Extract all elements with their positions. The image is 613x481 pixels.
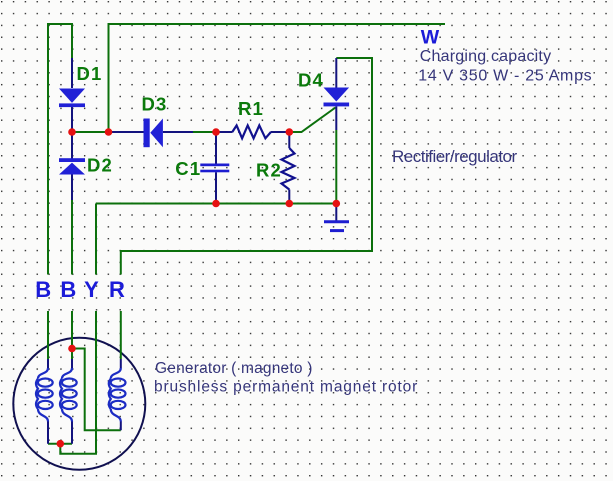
svg-text:D2: D2 — [87, 155, 113, 176]
wire: SCR gate from node4 — [289, 108, 335, 133]
svg-text:Charging capacity: Charging capacity — [420, 48, 551, 65]
inductor coil L2 — [60, 368, 77, 422]
wire: B2 to D2 anode — [71, 200, 73, 275]
wire: B2 lower — [71, 311, 73, 359]
wire: W output rail — [109, 24, 446, 132]
wire: ground rail — [96, 203, 336, 205]
lead D1 top — [71, 58, 73, 88]
capacitor C1 — [200, 164, 229, 173]
svg-text:R1: R1 — [238, 98, 264, 119]
wire: B1 lower — [47, 311, 49, 359]
wire: node1 to node2 — [72, 131, 109, 133]
diode D2 — [59, 158, 85, 174]
wire: D4 top to right rail to R label — [121, 58, 372, 275]
wire: Y lower into generator — [60, 311, 96, 454]
resistor R2 — [282, 148, 295, 190]
lead R1 — [216, 131, 289, 133]
svg-text:D4: D4 — [298, 70, 324, 91]
junction node4 — [286, 128, 294, 136]
ground — [324, 222, 349, 231]
junction coil2 top — [68, 345, 76, 353]
junction R2 bottom — [286, 200, 294, 208]
svg-text:B: B — [60, 277, 76, 302]
lead coil3 — [120, 359, 122, 430]
svg-text:D1: D1 — [77, 63, 103, 84]
resistor R1 — [232, 125, 271, 138]
lead coil2 — [71, 359, 73, 444]
wire: coil2 top tie to coil3 bottom — [72, 349, 121, 431]
inductor coil L3 — [109, 368, 126, 422]
lead C1 — [215, 132, 217, 204]
lead R2 — [288, 132, 290, 204]
wire: coil1-coil2 bottom tie — [48, 443, 72, 445]
junction D4 cathode — [333, 200, 341, 208]
generator circle (magneto housing) — [13, 338, 145, 470]
inductor coil L1 — [36, 368, 53, 422]
svg-text:C1: C1 — [175, 158, 201, 179]
svg-text:W: W — [421, 26, 440, 48]
lead ground — [335, 204, 337, 221]
lead D4 — [335, 58, 337, 130]
svg-text:brushless permanent magnet rot: brushless permanent magnet rotor — [154, 379, 418, 396]
svg-text:R2: R2 — [256, 160, 282, 181]
svg-text:R: R — [109, 277, 125, 302]
diode D3 — [144, 119, 163, 148]
junction C1 bottom — [212, 200, 220, 208]
junction coil bottom tie — [57, 440, 65, 448]
lead D1 bottom — [71, 107, 73, 133]
junction node2 — [105, 128, 113, 136]
lead coil1 — [47, 359, 49, 444]
svg-text:Y: Y — [84, 277, 99, 302]
svg-text:14 V 350 W - 25 Amps: 14 V 350 W - 25 Amps — [418, 68, 592, 85]
svg-text:B: B — [35, 277, 51, 302]
junction node1 — [68, 128, 76, 136]
junction node3 — [212, 128, 220, 136]
lead D3 — [109, 131, 194, 133]
thyristor D4 — [324, 88, 350, 107]
svg-text:Rectifier/regulator: Rectifier/regulator — [392, 147, 518, 166]
wire: D4 cathode to ground rail — [335, 130, 337, 204]
wire: Y upper — [95, 204, 97, 275]
wire: green bit D3 to node3 — [192, 131, 216, 133]
diode D1 — [59, 89, 85, 108]
svg-text:Generator ( magneto ): Generator ( magneto ) — [155, 360, 313, 377]
wire: R lower into generator — [120, 311, 122, 359]
wire: B1 top loop to D1 anode — [48, 24, 72, 275]
lead D2 — [71, 132, 73, 200]
svg-text:D3: D3 — [142, 94, 168, 115]
